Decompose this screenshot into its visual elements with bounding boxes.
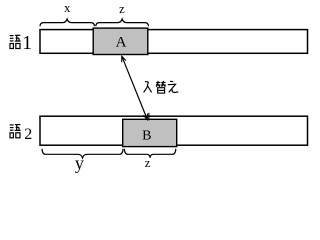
swap arrow shaft xyxy=(122,56,148,119)
svg-text:z: z xyxy=(119,2,125,16)
svg-text:z: z xyxy=(145,156,151,170)
svg-text:1: 1 xyxy=(22,33,32,54)
glyph え xyxy=(170,80,173,82)
brace z top xyxy=(96,19,149,26)
bar word2 xyxy=(40,116,308,145)
glyph 替 xyxy=(156,82,160,84)
svg-text:B: B xyxy=(142,128,151,143)
segment B xyxy=(123,119,177,146)
label 語2 kanji xyxy=(10,125,21,138)
svg-text:y: y xyxy=(75,153,84,173)
label 入替え swap text xyxy=(144,81,179,93)
brace x xyxy=(40,19,95,26)
swap arrow head top xyxy=(122,56,126,62)
bar word1 xyxy=(40,30,308,54)
brace z bottom xyxy=(124,149,175,158)
segment A xyxy=(93,28,148,54)
svg-text:x: x xyxy=(64,1,71,15)
svg-text:2: 2 xyxy=(24,126,32,143)
swap arrow head bottom xyxy=(143,114,147,120)
svg-text:A: A xyxy=(116,35,127,51)
glyph 入 xyxy=(145,81,148,83)
brace y xyxy=(42,149,123,158)
arrow end tick xyxy=(148,113,150,121)
label 語1 kanji xyxy=(10,35,21,48)
